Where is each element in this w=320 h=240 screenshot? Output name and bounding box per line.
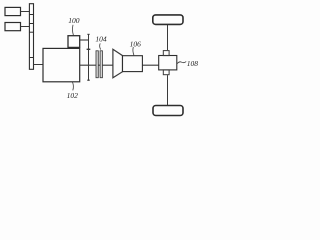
axle lower	[167, 75, 169, 105]
leader 108	[177, 62, 186, 64]
wire	[34, 64, 44, 66]
differential 108	[159, 56, 177, 70]
clutch 104 plate 2	[100, 51, 102, 78]
main shaft	[80, 64, 159, 66]
wheel front	[153, 15, 183, 25]
leader 104	[100, 43, 101, 49]
differential bottom flange	[163, 70, 169, 75]
svg-text:108: 108	[187, 59, 199, 68]
leader 106	[133, 47, 134, 55]
wheel rear	[153, 106, 183, 116]
leader 102	[72, 82, 73, 91]
bus stack	[29, 4, 33, 70]
svg-text:102: 102	[67, 91, 79, 100]
differential top flange	[163, 51, 169, 56]
axle upper	[167, 24, 169, 50]
gearbox 106	[123, 56, 143, 72]
battery module B1	[5, 7, 21, 15]
shaft end cap top	[87, 33, 89, 35]
leader 100	[71, 25, 74, 35]
svg-text:104: 104	[95, 35, 107, 44]
motor shaft	[80, 39, 89, 41]
engine block 102	[43, 48, 80, 81]
svg-text:106: 106	[130, 39, 142, 48]
motor/generator 100	[68, 36, 80, 48]
wire	[21, 26, 30, 28]
shaft tick	[87, 48, 91, 50]
wire	[21, 11, 30, 13]
battery module B2	[5, 23, 21, 31]
torque converter cone	[113, 49, 123, 78]
svg-text:100: 100	[68, 16, 80, 25]
shaft end cap bottom	[87, 79, 89, 81]
clutch 104 plate 1	[96, 51, 98, 78]
vertical shaft	[88, 34, 90, 80]
